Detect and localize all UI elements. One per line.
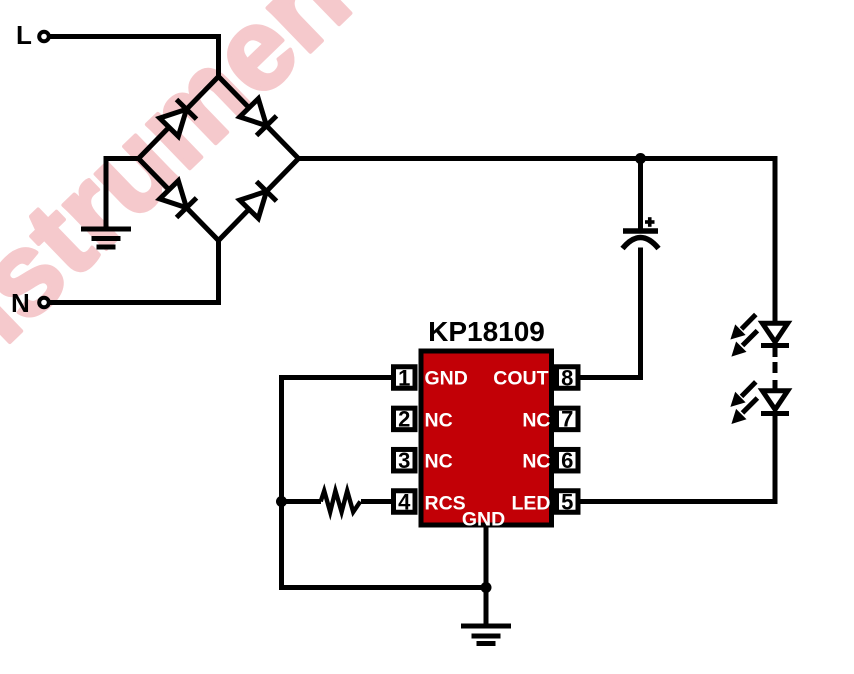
pin 2 box [394,408,416,430]
bridge rectifier diamond wires [139,77,299,241]
svg-text:L: L [16,20,32,50]
svg-text:GND: GND [462,509,505,531]
wire capacitor to pin 8 [581,248,641,378]
svg-text:LED: LED [512,493,551,515]
ground symbol (IC) [461,626,511,644]
svg-text:NC: NC [522,409,550,431]
junction dot at resistor [276,496,287,507]
svg-text:4: 4 [398,489,411,514]
LED2 emission arrow a [730,382,755,407]
wire L to bridge top [49,37,219,80]
svg-text:6: 6 [561,448,573,473]
wire pin 1 to left rail down to bottom rail [282,378,487,588]
pin 3 box [394,449,416,471]
resistor R1 wire to pin 4 [361,499,391,504]
capacitor C1 curved plate [623,238,659,249]
junction dot at IC ground [481,582,492,593]
diode D1 (left vertex to top vertex) [160,100,197,137]
svg-text:N: N [11,288,30,318]
svg-text:NC: NC [425,451,453,473]
svg-text:1: 1 [398,365,410,390]
pin 5 box [557,491,579,513]
IC U1 body KP18109 [421,351,552,525]
svg-text:8: 8 [561,365,573,390]
svg-text:GND: GND [425,368,468,390]
wire bridge left vertex to ground [106,159,141,230]
svg-text:5: 5 [561,489,573,514]
wire IC ground pin down [484,528,489,627]
wire LED2 to pin 5 [581,414,776,502]
resistor R1 wires [282,499,322,504]
svg-text:NC: NC [522,451,550,473]
diode D2 (top vertex to right vertex) [240,99,277,136]
svg-text:KP18109: KP18109 [428,316,545,347]
diode D3 (left vertex to bottom vertex) [160,181,197,218]
pin 1 box [394,367,416,389]
ground symbol (bridge) [81,229,131,247]
pin 7 box [557,408,579,430]
pin 8 box [557,367,579,389]
svg-text:7: 7 [561,407,573,432]
wire N to bridge bottom [49,241,219,303]
terminal N circle [39,298,49,308]
svg-text:RCS: RCS [425,493,466,515]
LED1 emission arrow a [730,315,755,340]
svg-text:COUT: COUT [493,368,548,390]
diode D4 (bottom vertex to right vertex) [240,182,277,219]
LED1 emission arrow b [731,331,757,357]
dashed link between LEDs [773,346,778,392]
svg-text:2: 2 [398,407,410,432]
wire bridge output to LED branch [299,159,776,323]
capacitor C1 plus sign [645,217,655,227]
pin 6 box [557,449,579,471]
capacitor C1 wire top [638,159,643,231]
terminal L circle [39,32,49,42]
resistor R1 zigzag [321,491,361,512]
capacitor C1 top plate [623,228,658,234]
pin 4 box [394,491,416,513]
junction dot at capacitor [635,153,646,164]
svg-text:3: 3 [398,448,410,473]
LED LED2 [761,391,789,414]
LED2 emission arrow b [731,398,757,424]
svg-text:NC: NC [425,409,453,431]
LED LED1 [761,323,789,345]
